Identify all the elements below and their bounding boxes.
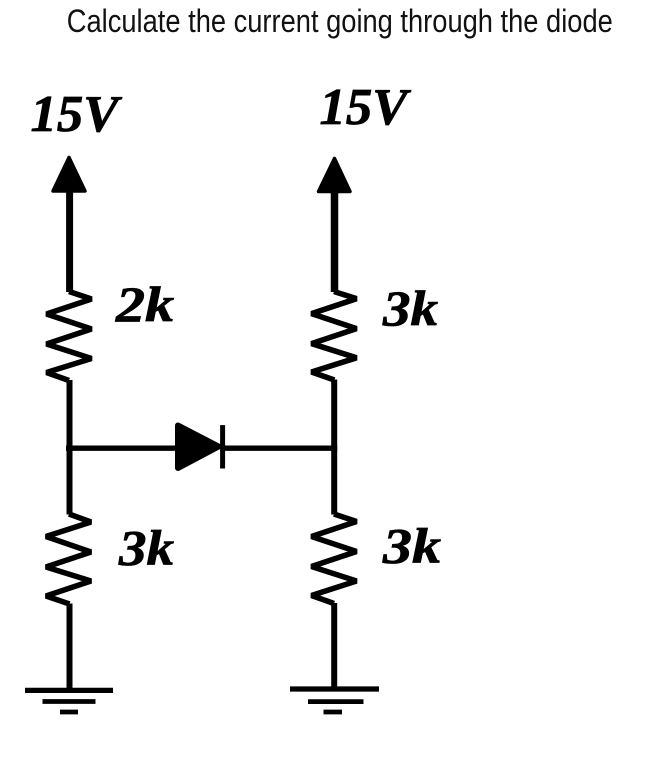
power arrow right (15V supply) <box>319 159 351 293</box>
svg-text:3k: 3k <box>382 518 441 574</box>
wire right middle (R3 bottom to node B to R4 top) <box>331 380 337 515</box>
wire node A to diode anode <box>66 446 179 451</box>
svg-text:3k: 3k <box>382 280 438 336</box>
resistor R4 3k (right bottom) <box>312 514 357 604</box>
resistor R3 3k (right top) <box>312 292 357 381</box>
svg-text:2k: 2k <box>115 276 174 332</box>
svg-text:3k: 3k <box>118 520 174 576</box>
svg-text:15V: 15V <box>31 86 123 143</box>
svg-text:Calculate the current going th: Calculate the current going through the … <box>67 3 613 39</box>
wire left bottom (R2 to ground) <box>67 604 73 691</box>
ground right <box>290 689 379 712</box>
wire diode cathode to node B <box>223 446 337 451</box>
resistor R1 2k (left top) <box>47 292 92 381</box>
power arrow left (15V supply) <box>53 158 85 293</box>
resistor R2 3k (left bottom) <box>46 514 91 604</box>
ground left <box>25 690 113 712</box>
wire right bottom (R4 to ground) <box>331 603 337 689</box>
svg-text:15V: 15V <box>320 79 412 136</box>
wire left middle (R1 bottom to node A to R2 top) <box>67 380 73 515</box>
diode D1 <box>178 425 223 468</box>
